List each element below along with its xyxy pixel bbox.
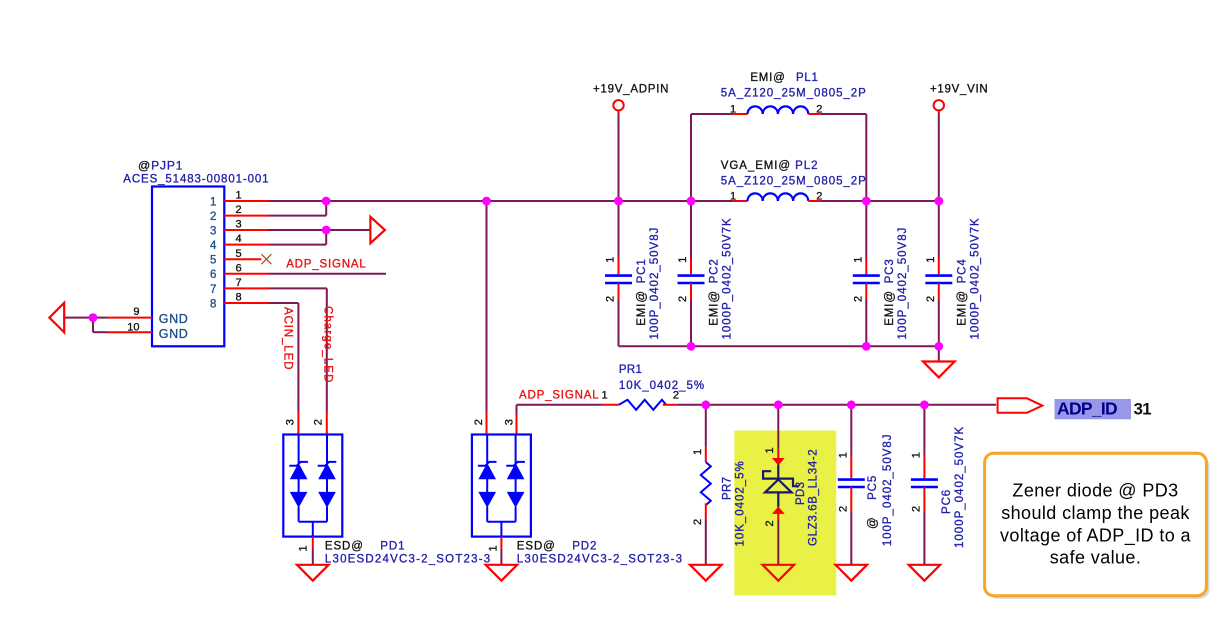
svg-text:5: 5 bbox=[236, 248, 242, 260]
svg-text:VGA_EMI@ PL2: VGA_EMI@ PL2 bbox=[721, 160, 819, 172]
svg-text:1: 1 bbox=[764, 447, 776, 453]
svg-text:ESD@ PD2: ESD@ PD2 bbox=[517, 541, 598, 553]
svg-text:1: 1 bbox=[677, 257, 689, 263]
svg-text:2: 2 bbox=[764, 520, 776, 526]
svg-text:100P_0402_50V8J: 100P_0402_50V8J bbox=[882, 433, 894, 546]
svg-text:safe value.: safe value. bbox=[1050, 548, 1141, 568]
svg-text:L30ESD24VC3-2_SOT23-3: L30ESD24VC3-2_SOT23-3 bbox=[325, 553, 491, 565]
svg-text:1: 1 bbox=[692, 449, 704, 455]
svg-text:2: 2 bbox=[816, 104, 822, 116]
svg-text:ADP_SIGNAL: ADP_SIGNAL bbox=[519, 390, 599, 402]
svg-text:5A_Z120_25M_0805_2P: 5A_Z120_25M_0805_2P bbox=[721, 176, 867, 188]
svg-text:ACES_51483-00801-001: ACES_51483-00801-001 bbox=[123, 174, 269, 186]
svg-text:GND: GND bbox=[159, 327, 189, 341]
svg-text:1: 1 bbox=[605, 257, 617, 263]
svg-text:7: 7 bbox=[210, 284, 216, 296]
svg-text:EMI@ PC2: EMI@ PC2 bbox=[709, 258, 721, 325]
svg-text:2: 2 bbox=[816, 191, 822, 203]
svg-text:1: 1 bbox=[730, 104, 736, 116]
svg-text:1: 1 bbox=[910, 452, 922, 458]
svg-text:@ PC5: @ PC5 bbox=[867, 475, 879, 529]
svg-text:EMI@ PL1: EMI@ PL1 bbox=[750, 72, 818, 84]
svg-text:3: 3 bbox=[236, 219, 242, 231]
svg-text:10K_0402_5%: 10K_0402_5% bbox=[735, 460, 747, 546]
svg-text:7: 7 bbox=[236, 277, 242, 289]
svg-text:1000P_0402_50V7K: 1000P_0402_50V7K bbox=[954, 426, 966, 548]
svg-text:2: 2 bbox=[605, 296, 617, 302]
svg-text:9: 9 bbox=[133, 306, 139, 318]
svg-text:1: 1 bbox=[487, 545, 499, 551]
svg-text:10: 10 bbox=[127, 321, 139, 333]
svg-text:1: 1 bbox=[602, 390, 608, 402]
svg-text:2: 2 bbox=[210, 211, 216, 223]
svg-text:31: 31 bbox=[1134, 399, 1152, 418]
svg-text:PR7: PR7 bbox=[722, 477, 734, 500]
svg-text:2: 2 bbox=[473, 419, 485, 425]
svg-text:ADP_ID: ADP_ID bbox=[1057, 398, 1117, 418]
svg-text:2: 2 bbox=[852, 296, 864, 302]
svg-text:100P_0402_50V8J: 100P_0402_50V8J bbox=[649, 227, 661, 340]
svg-text:3: 3 bbox=[284, 419, 296, 425]
svg-text:Zener diode @ PD3: Zener diode @ PD3 bbox=[1012, 481, 1178, 501]
svg-text:6: 6 bbox=[236, 262, 242, 274]
svg-text:@PJP1: @PJP1 bbox=[138, 159, 183, 173]
svg-text:2: 2 bbox=[925, 296, 937, 302]
svg-text:8: 8 bbox=[236, 292, 242, 304]
svg-text:GLZ3.6B_LL34-2: GLZ3.6B_LL34-2 bbox=[808, 449, 820, 546]
svg-text:2: 2 bbox=[313, 419, 325, 425]
svg-text:100P_0402_50V8J: 100P_0402_50V8J bbox=[897, 227, 909, 340]
svg-text:2: 2 bbox=[837, 506, 849, 512]
svg-text:2: 2 bbox=[236, 204, 242, 216]
svg-text:1000P_0402_50V7K: 1000P_0402_50V7K bbox=[722, 217, 734, 339]
svg-text:+19V_ADPIN: +19V_ADPIN bbox=[593, 84, 669, 96]
svg-text:EMI@ PC4: EMI@ PC4 bbox=[956, 258, 968, 325]
svg-text:1: 1 bbox=[852, 257, 864, 263]
svg-text:8: 8 bbox=[210, 298, 216, 310]
svg-text:10K_0402_5%: 10K_0402_5% bbox=[619, 380, 705, 392]
svg-text:ADP_SIGNAL: ADP_SIGNAL bbox=[286, 258, 366, 270]
svg-text:2: 2 bbox=[910, 506, 922, 512]
svg-text:L30ESD24VC3-2_SOT23-3: L30ESD24VC3-2_SOT23-3 bbox=[517, 553, 683, 565]
svg-text:1: 1 bbox=[298, 545, 310, 551]
svg-text:2: 2 bbox=[673, 390, 679, 402]
svg-text:PC6: PC6 bbox=[941, 489, 953, 514]
svg-text:1: 1 bbox=[837, 452, 849, 458]
svg-text:3: 3 bbox=[504, 419, 516, 425]
svg-text:1000P_0402_50V7K: 1000P_0402_50V7K bbox=[969, 217, 981, 339]
svg-text:1: 1 bbox=[730, 191, 736, 203]
svg-text:1: 1 bbox=[210, 196, 216, 208]
svg-text:GND: GND bbox=[159, 312, 189, 326]
svg-text:EMI@ PC3: EMI@ PC3 bbox=[884, 258, 896, 325]
svg-text:1: 1 bbox=[236, 190, 242, 202]
svg-text:5A_Z120_25M_0805_2P: 5A_Z120_25M_0805_2P bbox=[721, 88, 867, 100]
svg-text:2: 2 bbox=[692, 519, 704, 525]
svg-text:Charge_LED: Charge_LED bbox=[322, 306, 334, 383]
svg-text:1: 1 bbox=[925, 257, 937, 263]
svg-text:PD3: PD3 bbox=[795, 482, 807, 505]
svg-text:ESD@ PD1: ESD@ PD1 bbox=[325, 541, 406, 553]
svg-text:+19V_VIN: +19V_VIN bbox=[930, 84, 988, 96]
svg-text:should clamp the peak: should clamp the peak bbox=[1001, 503, 1190, 523]
svg-text:2: 2 bbox=[677, 296, 689, 302]
svg-text:PR1: PR1 bbox=[619, 364, 642, 376]
svg-text:4: 4 bbox=[210, 240, 217, 252]
svg-text:EMI@ PC1: EMI@ PC1 bbox=[636, 258, 648, 325]
svg-text:5: 5 bbox=[210, 255, 216, 267]
svg-text:6: 6 bbox=[210, 269, 216, 281]
svg-text:voltage of ADP_ID to a: voltage of ADP_ID to a bbox=[1000, 525, 1191, 546]
svg-text:4: 4 bbox=[236, 233, 242, 245]
svg-text:3: 3 bbox=[210, 225, 216, 237]
svg-text:ACIN_LED: ACIN_LED bbox=[282, 307, 294, 370]
